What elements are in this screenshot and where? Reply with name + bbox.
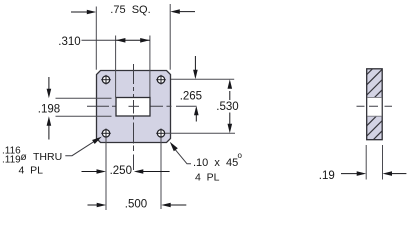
slot extension line right (x=149.9): [149, 36, 151, 98]
dimension .250 left arrow: [82, 171, 99, 173]
hole extension line right (x=161): [160, 133, 162, 209]
dimension .530 bottom arrow: [229, 113, 231, 125]
svg-text:.198: .198: [38, 103, 60, 115]
dimension .500 right arrow: [169, 204, 186, 206]
dimension .500 left arrow: [88, 204, 99, 206]
hole extension line left (x=106): [105, 133, 107, 210]
horizontal centerline: [87, 105, 197, 107]
hole callout leader: [65, 142, 94, 156]
hole top-left: [101, 75, 111, 85]
dimension .198 extension lines (slot edges extended left): [56, 97, 112, 99]
dimension .19 extension lines: [365, 145, 367, 180]
svg-text:.75 SQ.: .75 SQ.: [110, 4, 150, 16]
hole bottom-left: [101, 129, 111, 139]
svg-text:.530: .530: [216, 101, 238, 113]
svg-text:ø: ø: [21, 152, 27, 163]
vertical centerline: [133, 64, 135, 170]
dimension .265 top arrow: [194, 56, 196, 71]
dimension .530 top arrow: [229, 91, 231, 100]
dimension .265 top extension line (top hole centerline): [171, 78, 234, 80]
slot cross-section white band: [367, 97, 381, 116]
section slot boundary lines: [367, 96, 382, 98]
svg-text:.500: .500: [125, 199, 147, 211]
dimension .310 arrows: [116, 39, 150, 41]
dimension .198 top arrow: [48, 77, 50, 90]
dimension .265 bottom arrow: [195, 114, 197, 122]
dimension .75 SQ. extension lines: [95, 7, 97, 70]
hatching bottom block: [333, 55, 412, 160]
hole top-right: [156, 75, 166, 85]
dimension .530 bottom extension line (bottom hole centerline): [166, 132, 235, 134]
side view hatched section: [296, 55, 412, 160]
dimension .310 leader: [82, 39, 116, 41]
svg-text:o: o: [238, 151, 243, 160]
hole bottom-right: [156, 129, 166, 139]
svg-text:.310: .310: [58, 36, 80, 48]
center slot: [116, 98, 150, 117]
hatching top block: [296, 55, 412, 145]
dimension .75 SQ. left arrow: [71, 11, 89, 13]
svg-text:4 PL: 4 PL: [195, 172, 220, 184]
side view centerline: [357, 105, 393, 107]
svg-text:.19: .19: [319, 170, 335, 182]
dimension .19 left arrow: [341, 173, 358, 175]
svg-text:4 PL: 4 PL: [19, 164, 44, 176]
svg-text:.250: .250: [110, 165, 132, 177]
plate outline (front view, chamfered square): [97, 71, 171, 143]
slot center cross: [129, 105, 140, 107]
dimension .250 right arrow: [141, 171, 170, 173]
svg-text:.265: .265: [180, 90, 202, 102]
slot extension line left (x=115.6): [115, 36, 117, 98]
dimension .75 SQ. right arrow: [177, 11, 195, 13]
dimension .19 right arrow: [391, 173, 407, 175]
dimension .198 bottom arrow: [48, 125, 50, 140]
svg-text:THRU: THRU: [33, 151, 62, 163]
svg-text:.10 x 45: .10 x 45: [193, 157, 238, 169]
chamfer callout leader: [175, 149, 191, 164]
